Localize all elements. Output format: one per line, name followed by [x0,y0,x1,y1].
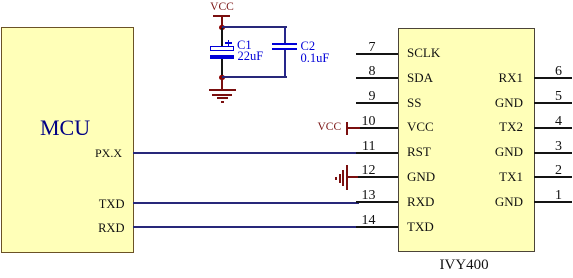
pin 5 name GND [472,96,523,109]
pin 1 number [522,189,562,203]
pin 10 stub [356,127,398,129]
pin 5 number [522,90,562,104]
MCU pin name RXD [0,222,125,235]
pin 9 number [335,90,376,104]
ground (pin 12) bar 1 [346,165,348,190]
ground stem below C1 [221,78,223,90]
ground (pin 12) bar 3 [339,174,341,183]
wire PX.X to RST [133,152,359,154]
wire TXD to RXD [133,202,359,204]
capacitor C1 bottom plate [210,55,234,59]
MCU pin name TXD [0,198,125,211]
pin 11 name RST [407,145,431,158]
junction dot bottom node [219,75,225,81]
junction dot top node [219,25,225,31]
capacitor C1 value 22uF [238,50,264,62]
pin 13 number [335,189,376,203]
pin 9 name SS [407,96,421,109]
pin 8 stub [356,77,398,79]
pin 13 stub [356,201,398,203]
IVY400 part label [440,258,489,273]
pin 4 name TX2 [472,120,523,133]
pin 2 stub [534,176,572,178]
capacitor C2 bottom plate [272,48,297,50]
pin 3 stub [534,152,572,154]
pin 11 number [335,140,376,154]
pin 2 number [522,164,562,178]
pin 3 name GND [472,145,523,158]
wire RXD to TXD [133,226,359,228]
pin 14 number [335,214,376,228]
pin 6 number [522,65,562,79]
capacitor C1 plus sign [225,42,232,44]
pin 10 name VCC [407,120,434,133]
MCU pin name PX.X [0,147,122,160]
ground bar 3 [217,97,228,99]
pin 1 stub [534,201,572,203]
pin 12 name GND [407,170,435,183]
pin 4 number [522,115,562,129]
pin 3 number [522,140,562,154]
capacitor C2 pin lower [284,50,286,77]
pin 7 stub [356,53,398,55]
power port VCC (pin 10) bar [346,122,348,135]
pin 8 number [335,65,376,79]
ground (pin 12) bar 2 [342,170,344,187]
power port VCC (top) label [208,1,236,13]
ground bar 1 [209,89,236,91]
capacitor C1 pin upper [221,28,223,46]
pin 12 stub [356,176,398,178]
pin 12 number [335,164,376,178]
capacitor C1 designator [237,39,252,51]
MCU label [40,117,90,139]
ground (pin 12) stem wire [348,176,358,178]
ground bar 4 [221,101,225,103]
pin 13 name RXD [407,195,434,208]
pin 8 name SDA [407,71,433,84]
pin 6 stub [534,77,572,79]
pin 6 name RX1 [472,71,523,84]
ground (pin 12) bar 4 [335,177,337,180]
ground bar 2 [212,94,232,96]
pin 9 stub [356,102,398,104]
capacitor C1 pin lower [221,59,223,77]
wire bottom rail [222,76,287,78]
pin 14 stub [356,226,398,228]
IVY400 body [398,28,535,252]
pin 11 stub [356,152,398,154]
pin 5 stub [534,102,572,104]
power port VCC (pin 10) stem wire [348,127,360,129]
pin 2 name TX1 [472,170,523,183]
capacitor C2 value 0.1uF [301,52,330,64]
power port VCC stem [221,16,223,27]
power port VCC (pin 10) label [318,121,342,133]
capacitor C2 top plate [272,43,297,45]
MCU U? body [1,27,134,253]
capacitor C2 pin upper [284,27,286,43]
pin 7 name SCLK [407,46,440,59]
wire top rail VCC node [222,26,287,28]
capacitor C2 designator [301,40,316,52]
pin 1 name GND [472,195,523,208]
power port VCC bar [213,15,230,17]
pin 10 number [335,115,376,129]
capacitor C1 top plate [210,46,234,51]
pin 4 stub [534,127,572,129]
pin 14 name TXD [407,220,434,233]
pin 7 number [335,41,376,55]
